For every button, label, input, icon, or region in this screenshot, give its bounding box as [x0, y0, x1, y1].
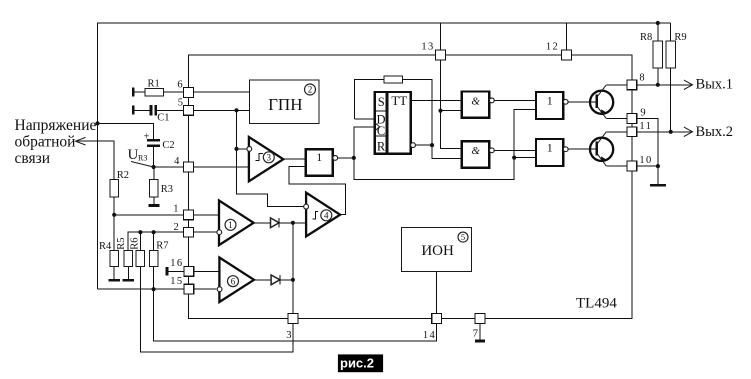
wire comp1 out [254, 222, 271, 224]
wire TT Q out to and-gates [411, 100, 462, 102]
arrowhead out2 [684, 127, 693, 136]
capacitor C1 [133, 109, 151, 111]
svg-text:R8: R8 [640, 32, 652, 43]
svg-text:1: 1 [316, 150, 322, 164]
wire PWM line to output or-gates [354, 110, 536, 180]
wire feedback arrow to R2 [76, 141, 115, 180]
block ION (reference) [401, 227, 471, 271]
terminal tick pin 16 [166, 267, 169, 276]
wire or1 out node [338, 157, 354, 159]
terminal tick R1 [132, 88, 135, 97]
svg-text:13: 13 [421, 41, 434, 52]
node sawtooth comp3 [234, 147, 238, 151]
svg-text:1: 1 [173, 203, 178, 214]
svg-text:R6: R6 [129, 237, 140, 249]
node diode2 join [291, 278, 295, 282]
wire TT Q-bar out [415, 144, 432, 146]
svg-text:R4: R4 [99, 241, 112, 252]
ground R4 [109, 279, 120, 282]
svg-text:связи: связи [15, 150, 51, 167]
svg-text:Напряжение: Напряжение [15, 117, 97, 134]
pin 12 [562, 50, 572, 60]
diode VD1 [271, 218, 280, 228]
or-gate 1 (small) [306, 149, 333, 176]
wire R4 ground stub [113, 267, 115, 280]
label circled 4 [321, 210, 332, 221]
wire to Q1 base [568, 101, 596, 103]
wire pin 12 stub [566, 23, 568, 60]
wire feedback node to pin 3 [292, 223, 294, 319]
svg-text:+: + [144, 131, 150, 142]
pin 10 [627, 161, 637, 171]
svg-text:R9: R9 [674, 32, 686, 43]
svg-text:S: S [378, 95, 385, 109]
svg-text:R5: R5 [116, 237, 127, 249]
svg-text:1: 1 [547, 140, 553, 154]
ground emitters [650, 184, 666, 187]
node R7-pin2 [152, 230, 156, 234]
resistor R9 [670, 23, 672, 41]
wire pin 7 ground [479, 319, 481, 340]
svg-text:обратной: обратной [15, 134, 76, 151]
svg-text:R7: R7 [156, 241, 168, 252]
svg-text:U: U [128, 147, 139, 163]
resistor R1 with wires to pin 6 [133, 91, 145, 93]
comparator 4 (PWM) [306, 193, 340, 237]
svg-text:&: & [471, 96, 480, 108]
node emitters [656, 164, 660, 168]
wire Q2 emitter to pin 10 [606, 165, 627, 167]
node sawtooth tap [234, 108, 238, 112]
diode VD2 [271, 275, 280, 285]
wire R2 bottom / pin 1 / R4 [113, 197, 115, 251]
or-gate top output [536, 92, 563, 119]
resistor R5 [124, 250, 132, 266]
svg-text:4: 4 [324, 211, 329, 221]
svg-text:R1: R1 [148, 79, 160, 90]
svg-text:5: 5 [461, 232, 465, 242]
wire R7 bottom to pin 14 loop [154, 267, 437, 341]
pin 5 [184, 105, 194, 115]
wire pin 2 divider line [128, 232, 217, 250]
svg-text:ИОН: ИОН [421, 243, 454, 259]
block GPN (sawtooth generator) [249, 80, 319, 124]
label circled 6 [228, 276, 239, 287]
leader U_R3 [131, 162, 154, 168]
node rail-C2 [95, 121, 99, 125]
svg-text:3: 3 [286, 330, 291, 341]
capacitor C2 [147, 139, 160, 142]
resistor (TT feedback) [384, 76, 402, 83]
node R7-rail [152, 287, 156, 291]
node toggle [430, 143, 434, 147]
pin 11 [627, 127, 637, 137]
wire R6 top stub [139, 232, 141, 250]
resistor R7 [149, 250, 157, 266]
pin 9 [627, 114, 637, 124]
pin 16 [184, 267, 194, 277]
svg-text:16: 16 [170, 258, 183, 269]
svg-text:Вых.1: Вых.1 [696, 77, 734, 93]
node R9 out2 [669, 130, 673, 134]
svg-text:Вых.2: Вых.2 [696, 124, 734, 140]
resistor R8 [657, 23, 659, 41]
wire comp3 out [283, 158, 305, 160]
svg-text:R2: R2 [117, 170, 129, 181]
label circled 5 [458, 232, 468, 242]
comparator 6 [219, 258, 254, 303]
label circled 2 [305, 84, 316, 95]
node R8 out1 [656, 83, 660, 87]
svg-text:12: 12 [546, 41, 559, 52]
wire to TT C input [354, 127, 375, 158]
pin 15 [184, 284, 194, 294]
svg-text:14: 14 [423, 330, 436, 341]
svg-text:рис.2: рис.2 [340, 355, 374, 370]
wire pins 9-10 common emitter to ground [637, 119, 658, 185]
node R6-pin2 [138, 230, 142, 234]
pin 8 [627, 80, 637, 90]
svg-text:R3: R3 [138, 154, 147, 163]
svg-text:10: 10 [639, 155, 652, 166]
svg-text:C1: C1 [157, 113, 169, 124]
transistor Q1 [590, 91, 613, 114]
wire to Q2 base [568, 148, 596, 150]
and-gate top [462, 92, 489, 118]
svg-text:2: 2 [308, 85, 313, 95]
svg-text:TL494: TL494 [576, 296, 617, 312]
wire top supply rail [98, 23, 671, 289]
svg-text:&: & [471, 145, 480, 157]
svg-text:5: 5 [178, 98, 183, 109]
wire R5 ground stub [127, 267, 129, 280]
ground R5 [123, 279, 134, 282]
terminal tick C1 [132, 106, 135, 115]
wire bottom-left rail to pin 15 [98, 288, 217, 290]
wire comp4 out to or1 [289, 167, 346, 215]
svg-text:R3: R3 [161, 184, 173, 195]
wire Q2 collector to pin 11 [606, 131, 627, 133]
svg-text:3: 3 [267, 153, 272, 163]
resistor R6 [136, 250, 144, 266]
svg-text:9: 9 [640, 107, 645, 118]
resistor R4 [110, 250, 118, 266]
svg-text:TT: TT [391, 93, 407, 108]
pin 2 [184, 227, 194, 237]
svg-text:7: 7 [473, 328, 478, 339]
wire pin 4 line [154, 166, 249, 168]
wire R7 top stub [153, 232, 155, 250]
node pin1-R2-R4 [112, 213, 116, 217]
arrowhead out1 [684, 80, 693, 89]
feedback arrowhead [76, 137, 86, 145]
wire pin 13 output-control line [441, 23, 462, 149]
wire and1 out [494, 99, 536, 101]
pin 4 [184, 162, 194, 172]
caption ris.2 [338, 354, 383, 372]
svg-text:15: 15 [170, 276, 183, 287]
resistor R3 [153, 167, 155, 180]
ground R3 [149, 204, 160, 207]
wire R6 bottom to pin 3 loop [140, 267, 293, 352]
node feedback [291, 221, 295, 225]
wire sawtooth distribution [237, 110, 304, 206]
pin 13 [436, 50, 446, 60]
comparator 1 (error amp) [219, 201, 254, 246]
IC boundary box TL494 [189, 55, 632, 319]
wire Q1 collector to pin 8 [606, 84, 627, 86]
node PWM branch [512, 156, 516, 160]
pin 1 [184, 210, 194, 220]
wire pin 16 line [167, 270, 220, 272]
wire output 1 line [637, 84, 693, 86]
wire ION to pin 14 [436, 271, 438, 318]
flip-flop TT [375, 92, 411, 154]
bubble TT inverted out [411, 143, 416, 148]
node R8 rail [656, 21, 660, 25]
svg-text:11: 11 [639, 121, 652, 132]
node oc branch [438, 109, 442, 113]
label circled 3 [263, 152, 274, 163]
wire TT toggle feedback with resistor [354, 80, 384, 120]
resistor R2 [110, 180, 119, 197]
node C2-R3-pin4 [152, 165, 156, 169]
svg-text:6: 6 [177, 79, 182, 90]
svg-text:2: 2 [174, 222, 179, 233]
svg-text:8: 8 [639, 73, 644, 84]
transistor Q2 [590, 138, 613, 161]
svg-text:4: 4 [174, 156, 180, 167]
pin 6 [184, 88, 194, 98]
pin 14 [432, 314, 442, 324]
pin 3 [288, 314, 298, 324]
svg-text:1: 1 [547, 93, 553, 107]
svg-text:6: 6 [231, 276, 236, 286]
svg-text:R: R [377, 139, 386, 153]
wire output 2 line [637, 131, 693, 133]
comparator 3 (dead-time) [249, 137, 283, 181]
label circled 1 [225, 219, 236, 230]
svg-text:ГПН: ГПН [268, 95, 302, 114]
wire comp6 out [254, 279, 271, 281]
svg-text:C2: C2 [162, 140, 174, 151]
svg-text:1: 1 [228, 220, 233, 230]
pin 7 [475, 314, 485, 324]
and-gate bottom [462, 141, 489, 167]
or-gate bottom output [536, 139, 563, 166]
wire and2 out [494, 149, 536, 151]
chevron C dynamic input [375, 123, 380, 131]
wire Q1 emitter to pin 9 [606, 118, 627, 120]
wire C2 top branch [98, 123, 154, 141]
